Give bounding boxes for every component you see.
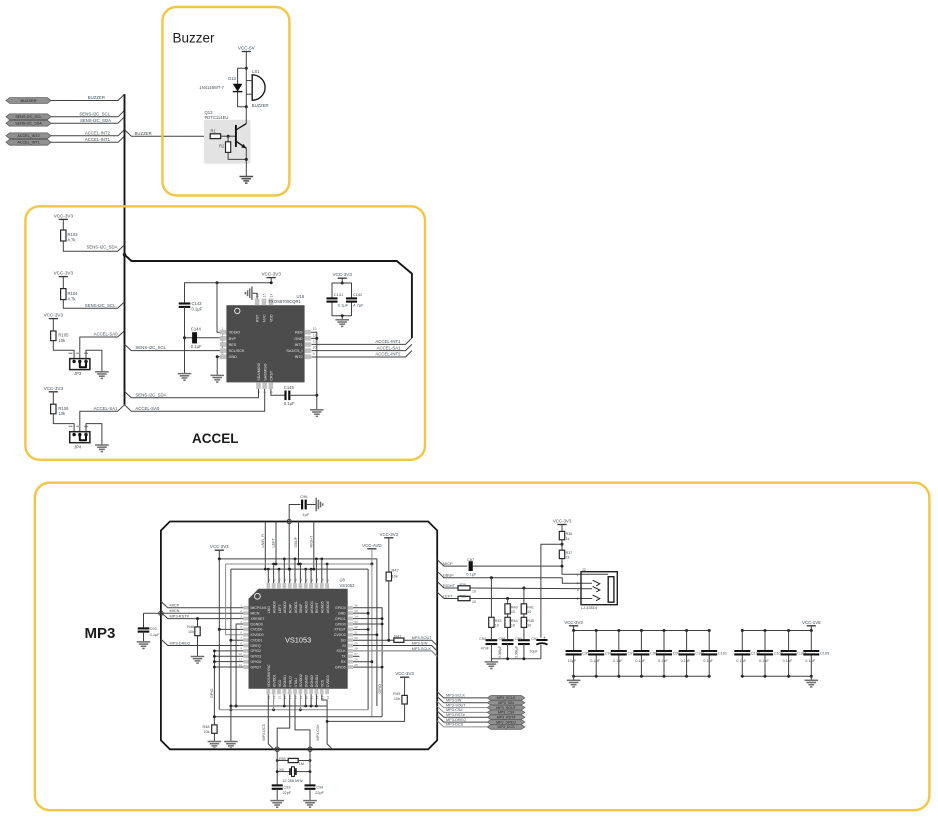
svg-text:23: 23 xyxy=(320,696,324,700)
bus exit wire MP3-SOUT xyxy=(437,701,487,707)
svg-text:GND: GND xyxy=(338,611,346,615)
svg-text:0.1µF: 0.1µF xyxy=(635,659,645,663)
svg-text:LEFT: LEFT xyxy=(278,604,282,613)
svg-text:MP3-DCS: MP3-DCS xyxy=(446,723,464,727)
ground sideways C96 xyxy=(315,498,317,512)
svg-text:1: 1 xyxy=(222,327,224,331)
jumper JP3 xyxy=(70,359,90,370)
svg-text:DGND0: DGND0 xyxy=(251,622,263,626)
left rail v1 xyxy=(218,559,220,710)
capacitor C96 top xyxy=(287,519,291,523)
node flag SENS-I2C_SCL xyxy=(6,114,51,120)
svg-text:XDCS/BSYNC: XDCS/BSYNC xyxy=(267,664,271,687)
svg-text:XTEST: XTEST xyxy=(334,628,346,632)
junction bottom node xyxy=(245,105,248,108)
svg-text:VCC-3V3: VCC-3V3 xyxy=(553,519,572,524)
svg-text:R47: R47 xyxy=(394,633,401,638)
tiny jumper marks JP3 xyxy=(69,353,89,354)
svg-text:SENS-I2C_SCL: SENS-I2C_SCL xyxy=(85,303,116,308)
capacitor C92 xyxy=(143,613,145,628)
svg-text:10: 10 xyxy=(527,610,531,614)
jumper JP4 xyxy=(70,432,90,443)
bus vertical tap GBUF xyxy=(298,522,300,565)
accelerometer U16 FXOS8700CQR1 xyxy=(220,293,317,393)
svg-text:MP3-CS#: MP3-CS# xyxy=(446,708,463,712)
node flag MP3_DCS xyxy=(487,725,525,730)
svg-text:ACCEL-SA0: ACCEL-SA0 xyxy=(135,406,159,411)
wire JP3 pin3 to ground xyxy=(86,350,102,372)
svg-text:11: 11 xyxy=(313,340,317,344)
svg-text:R44: R44 xyxy=(511,619,518,623)
junction pin5 gnd xyxy=(216,355,219,358)
svg-text:VCC-3V3: VCC-3V3 xyxy=(44,386,64,391)
svg-text:47: 47 xyxy=(272,578,276,582)
svg-text:ACCEL-SA0: ACCEL-SA0 xyxy=(94,332,118,337)
bus exit wire MP3-CS# xyxy=(437,706,487,712)
GPIO rail left xyxy=(213,651,215,725)
wire pin12 GND to rail xyxy=(311,337,317,339)
ground C92 xyxy=(137,641,151,643)
svg-text:GND: GND xyxy=(229,355,238,359)
svg-text:10: 10 xyxy=(511,610,515,614)
junction emitter/R2 xyxy=(245,158,248,161)
svg-text:LNIN_R: LNIN_R xyxy=(261,534,265,548)
resistor R43 xyxy=(490,578,492,618)
svg-text:SENS-I2C_SDA: SENS-I2C_SDA xyxy=(80,118,111,123)
svg-text:R39: R39 xyxy=(460,583,466,587)
wire pin25 GPIO5 xyxy=(353,666,382,668)
svg-text:31: 31 xyxy=(354,631,358,635)
node flag MP3_SOUT xyxy=(487,705,525,710)
svg-text:VCC-3V3: VCC-3V3 xyxy=(380,532,399,537)
node flag ACCEL_INT1 xyxy=(6,139,51,145)
diode D13 1N4148WT-7 xyxy=(233,84,243,92)
wire ACCEL-SA1 from JP4 pin2 to bus xyxy=(80,405,125,435)
cap bank2 top rail xyxy=(742,630,811,632)
svg-text:1µF: 1µF xyxy=(303,512,310,517)
svg-text:J2: J2 xyxy=(582,567,586,572)
wire SI MP3-SIN to bus xyxy=(353,646,437,652)
wire pin27 TX stub xyxy=(353,655,360,657)
bus entry MP3-DREQ xyxy=(161,639,243,645)
svg-text:16: 16 xyxy=(283,696,287,700)
wire ACCEL-SA0 from JP3 pin2 to bus xyxy=(80,331,125,362)
ground R48 xyxy=(208,741,222,743)
svg-text:R2: R2 xyxy=(219,144,225,149)
svg-text:42: 42 xyxy=(299,578,303,582)
svg-text:VDD: VDD xyxy=(270,314,274,322)
svg-text:LJ-43514: LJ-43514 xyxy=(581,605,598,610)
capacitor C88 xyxy=(502,639,514,641)
svg-text:XCS: XCS xyxy=(321,679,325,687)
svg-text:39: 39 xyxy=(315,578,319,582)
bus entry ACCEL-INT2 xyxy=(312,351,412,357)
svg-text:10k: 10k xyxy=(58,338,66,343)
svg-text:MICN: MICN xyxy=(170,608,180,613)
wire MP3-SOUT to bus xyxy=(404,640,437,646)
svg-text:0.1µF: 0.1µF xyxy=(466,571,477,576)
wire MICN from C92 xyxy=(144,612,244,614)
svg-text:DGND4: DGND4 xyxy=(315,675,319,687)
wire pin4 DGND0 xyxy=(236,624,243,706)
svg-text:VS1053: VS1053 xyxy=(340,583,356,588)
capacitor C96 xyxy=(595,629,598,632)
svg-text:ACCEL_INT1: ACCEL_INT1 xyxy=(17,141,39,145)
svg-text:GBUF: GBUF xyxy=(299,603,303,613)
svg-text:C141: C141 xyxy=(334,292,344,297)
capacitor C95 xyxy=(572,629,575,632)
capacitor C93 xyxy=(272,784,283,786)
svg-text:GPIO7: GPIO7 xyxy=(251,665,262,669)
resistor R2 xyxy=(226,142,231,153)
svg-text:SENS-I2C_SCL: SENS-I2C_SCL xyxy=(135,345,166,350)
wire block to ground xyxy=(341,316,343,320)
svg-text:VDDIO: VDDIO xyxy=(229,331,241,335)
wire R2 top xyxy=(227,136,229,142)
ground cap bank2 xyxy=(810,676,812,680)
capacitor C103 xyxy=(764,629,767,632)
capacitor C94 xyxy=(305,784,316,786)
wire VCC-5V to node xyxy=(245,52,247,69)
svg-text:MP3-DREQ: MP3-DREQ xyxy=(446,718,466,722)
bus entry ACCEL-SA1 xyxy=(312,344,412,350)
svg-text:14: 14 xyxy=(272,696,276,700)
svg-text:37: 37 xyxy=(326,578,330,582)
svg-text:C144: C144 xyxy=(191,327,202,332)
left rail v2 xyxy=(226,564,244,635)
svg-text:R104: R104 xyxy=(68,291,79,296)
svg-text:GPIO5: GPIO5 xyxy=(335,665,346,669)
svg-text:MP3-DCS: MP3-DCS xyxy=(262,723,266,740)
svg-text:XTALI: XTALI xyxy=(294,678,298,687)
svg-text:INT2: INT2 xyxy=(295,355,303,359)
svg-text:22: 22 xyxy=(315,696,319,700)
svg-text:11: 11 xyxy=(239,657,242,661)
svg-text:1N4148WT-7: 1N4148WT-7 xyxy=(199,85,224,90)
svg-text:0.1µF: 0.1µF xyxy=(759,659,769,663)
wire R37 to MICP node xyxy=(561,559,563,567)
wire main vertical VCC to collector xyxy=(245,68,247,107)
wire XTALI route xyxy=(295,694,310,756)
svg-text:VCC-3V3: VCC-3V3 xyxy=(44,313,64,318)
svg-text:C93: C93 xyxy=(284,786,291,790)
svg-text:20: 20 xyxy=(304,696,308,700)
svg-text:10µF: 10µF xyxy=(568,659,577,663)
svg-text:0.1µF: 0.1µF xyxy=(681,659,691,663)
svg-text:IOVDD1: IOVDD1 xyxy=(272,674,276,687)
svg-text:10: 10 xyxy=(527,624,531,628)
section frame ACCEL xyxy=(25,206,425,459)
svg-text:24: 24 xyxy=(326,696,330,700)
svg-text:CVDD1: CVDD1 xyxy=(251,638,263,642)
ground C93 xyxy=(270,800,284,802)
svg-text:R105: R105 xyxy=(58,333,69,338)
svg-text:XTALO: XTALO xyxy=(288,676,292,687)
svg-text:38: 38 xyxy=(320,578,324,582)
ground right rail xyxy=(310,409,324,411)
wire pin5 CVDD0 xyxy=(219,628,243,630)
svg-text:C145: C145 xyxy=(284,385,295,390)
capacitor C99 xyxy=(663,629,666,632)
junction VDD stem xyxy=(270,281,273,284)
svg-text:R1: R1 xyxy=(211,128,217,133)
svg-text:4: 4 xyxy=(222,346,224,350)
svg-text:VCC-3V3: VCC-3V3 xyxy=(54,213,74,218)
ground C94 xyxy=(303,800,317,802)
wire pin36 GPIO4 to gpio rail xyxy=(353,608,382,717)
svg-text:AGND4: AGND4 xyxy=(310,601,314,613)
svg-text:RIGHT: RIGHT xyxy=(310,535,314,547)
svg-text:1k: 1k xyxy=(566,537,570,541)
wire R49 to XCS xyxy=(327,704,405,721)
wire CRST pin8 to C145 xyxy=(271,389,286,395)
svg-text:AGND5: AGND5 xyxy=(321,601,325,613)
svg-text:0.1µF: 0.1µF xyxy=(284,401,295,406)
svg-text:R42: R42 xyxy=(392,567,399,572)
svg-text:25: 25 xyxy=(354,663,358,667)
svg-text:RX: RX xyxy=(341,660,347,664)
node flag MP3_RST# xyxy=(487,715,525,720)
svg-text:JP4: JP4 xyxy=(74,444,82,449)
resistor R39 series xyxy=(458,586,470,590)
svg-text:R106: R106 xyxy=(58,406,69,411)
wire SENS-I2C_SCL to pin4 xyxy=(125,344,227,350)
ground C143 xyxy=(178,373,192,375)
wire ACCEL-INT1 to bus xyxy=(51,136,125,142)
resistor R1 xyxy=(210,134,220,139)
capacitor C144 xyxy=(192,332,197,343)
svg-text:10: 10 xyxy=(495,624,499,628)
svg-text:9: 9 xyxy=(313,352,315,356)
svg-text:AGND6: AGND6 xyxy=(326,601,330,613)
bus entry GBUF right xyxy=(437,571,592,583)
svg-text:ACCEL-INT2: ACCEL-INT2 xyxy=(85,131,111,136)
bus vertical tap LEFT xyxy=(275,522,277,565)
svg-text:BYP: BYP xyxy=(229,337,237,341)
svg-text:SENS-I2C_SCL: SENS-I2C_SCL xyxy=(15,115,41,119)
svg-text:1k: 1k xyxy=(566,556,570,560)
svg-text:45: 45 xyxy=(283,578,287,582)
ground buzzer xyxy=(240,176,254,178)
svg-text:MP3_SIN: MP3_SIN xyxy=(498,701,514,705)
capacitor C97 xyxy=(617,629,620,632)
svg-text:SDA/MOSI: SDA/MOSI xyxy=(257,363,261,381)
resistor R49 pullup xyxy=(402,695,407,704)
svg-text:BUZZER: BUZZER xyxy=(21,98,37,103)
ground R46 xyxy=(191,656,205,658)
svg-text:GPIO: GPIO xyxy=(210,688,214,698)
svg-text:LEFT: LEFT xyxy=(272,538,276,548)
wire VCC to R104 xyxy=(62,277,64,289)
svg-text:3: 3 xyxy=(222,340,224,344)
svg-text:MP3_DCS: MP3_DCS xyxy=(498,725,516,729)
svg-text:LS1: LS1 xyxy=(252,69,260,74)
svg-text:SENS-I2C_SDA: SENS-I2C_SDA xyxy=(86,244,117,249)
resistor R42 xyxy=(386,572,391,581)
resistor R36 xyxy=(559,531,564,539)
svg-text:GPIO1: GPIO1 xyxy=(335,617,346,621)
wire BUZZER exit from bus xyxy=(125,130,211,137)
capacitor C143 xyxy=(179,302,191,304)
svg-text:32: 32 xyxy=(354,625,358,629)
svg-text:41: 41 xyxy=(304,578,308,582)
bus entry MICP right xyxy=(437,560,467,567)
svg-text:0.1µF: 0.1µF xyxy=(191,344,202,349)
svg-text:46: 46 xyxy=(278,578,282,582)
bus entry LEFT xyxy=(437,592,458,598)
svg-text:NVC: NVC xyxy=(263,314,267,322)
resistor R38 series xyxy=(458,596,470,600)
svg-text:10k: 10k xyxy=(392,573,398,578)
transistor block shading xyxy=(204,120,251,164)
wire IOVDD collect gray xyxy=(219,709,368,711)
wire DGND collect xyxy=(231,705,327,707)
svg-text:C142: C142 xyxy=(353,292,363,297)
rail3 vertical down right xyxy=(367,569,369,710)
svg-text:C101: C101 xyxy=(718,652,727,656)
svg-text:MICN: MICN xyxy=(251,611,260,615)
hop circle XTALO/bus xyxy=(275,747,279,751)
svg-text:0.1µF: 0.1µF xyxy=(805,659,815,663)
svg-text:R38: R38 xyxy=(460,595,466,599)
junction C145 node xyxy=(315,394,318,397)
svg-text:C94: C94 xyxy=(316,786,323,790)
wire XTALO route xyxy=(277,694,290,756)
bus exit wire MP3-RST# xyxy=(437,711,487,717)
svg-text:MICP: MICP xyxy=(443,561,453,566)
svg-text:ACCEL_INT2: ACCEL_INT2 xyxy=(17,134,39,138)
resistor R45 xyxy=(523,614,525,617)
bus vertical tap LNIN_R xyxy=(264,522,266,570)
bus entry MICP xyxy=(161,601,243,607)
bus vertical main xyxy=(124,94,126,405)
svg-text:LEFT: LEFT xyxy=(443,593,453,598)
svg-text:SENS-I2C_SDA: SENS-I2C_SDA xyxy=(135,392,166,397)
svg-text:D13: D13 xyxy=(228,76,236,81)
svg-text:FXOS8700CQR1: FXOS8700CQR1 xyxy=(269,299,302,304)
wire cap block frame xyxy=(332,283,352,298)
svg-text:MP3-RST#: MP3-RST# xyxy=(446,713,466,717)
node flag BUZZER xyxy=(6,98,51,104)
svg-text:C105: C105 xyxy=(820,652,829,656)
svg-text:VCC-AVD: VCC-AVD xyxy=(362,543,381,548)
svg-text:R43: R43 xyxy=(495,619,502,623)
svg-text:GPIO2: GPIO2 xyxy=(251,649,262,653)
svg-text:GPIO: GPIO xyxy=(378,684,382,694)
svg-text:12: 12 xyxy=(313,333,317,337)
junction R36/R37 xyxy=(561,543,564,546)
svg-text:MICP: MICP xyxy=(170,603,180,608)
svg-text:4: 4 xyxy=(577,582,579,586)
svg-text:28: 28 xyxy=(354,647,358,651)
bus exit wire MP3-DCS xyxy=(437,721,487,727)
rail2 vertical down xyxy=(371,564,373,717)
svg-text:0.1µF: 0.1µF xyxy=(783,659,793,663)
wires top pins to rails xyxy=(283,559,285,583)
svg-text:GBUF: GBUF xyxy=(443,573,454,578)
resistor R50 xyxy=(277,760,288,762)
svg-text:RES: RES xyxy=(295,331,303,335)
svg-text:Buzzer: Buzzer xyxy=(173,31,216,46)
wire SO through R47 to MP3-SOUT xyxy=(353,639,394,641)
svg-text:AGND3: AGND3 xyxy=(305,601,309,613)
svg-text:IOVDD0: IOVDD0 xyxy=(251,633,264,637)
svg-text:4.7k: 4.7k xyxy=(68,238,77,243)
bus vertical tap RIGHT xyxy=(313,522,315,570)
svg-text:CVDD2: CVDD2 xyxy=(334,633,346,637)
svg-text:48: 48 xyxy=(267,578,271,582)
wire R104 to bus SENS-I2C_SCL xyxy=(63,300,124,309)
resistor R106 xyxy=(51,404,56,414)
svg-text:SCL/SCK: SCL/SCK xyxy=(229,349,245,353)
svg-text:MP3_RST#: MP3_RST# xyxy=(497,715,516,719)
ground JP3 xyxy=(95,371,109,373)
wire JP4 pin3 to ground xyxy=(86,424,102,445)
svg-text:R50: R50 xyxy=(279,757,286,761)
svg-text:0.1µF: 0.1µF xyxy=(590,659,600,663)
svg-text:MP3-CS#: MP3-CS# xyxy=(316,724,320,741)
svg-text:ACCEL-SA1: ACCEL-SA1 xyxy=(94,406,118,411)
transistor Q13 xyxy=(235,125,237,147)
svg-text:13: 13 xyxy=(313,327,317,331)
wire MICP to jack xyxy=(473,565,562,567)
svg-text:10k: 10k xyxy=(394,696,400,701)
svg-text:SI: SI xyxy=(342,644,345,648)
svg-text:DGND1: DGND1 xyxy=(283,675,287,687)
svg-text:33: 33 xyxy=(354,620,358,624)
svg-text:C92: C92 xyxy=(150,626,157,631)
ground cap bank1 xyxy=(573,676,575,680)
ground sideways at RST xyxy=(251,286,253,300)
wire R2 bottom to emitter xyxy=(228,152,246,159)
resistor R105 xyxy=(51,331,56,341)
svg-text:21: 21 xyxy=(310,696,314,700)
left rail v3 xyxy=(230,569,232,741)
svg-text:C96: C96 xyxy=(300,494,307,499)
junction bus split xyxy=(123,253,127,257)
bus entry RIGHT xyxy=(437,582,458,589)
svg-text:10k: 10k xyxy=(58,411,66,416)
wire RST pin16 to ground-left xyxy=(252,293,257,298)
wire LEFT to jack xyxy=(470,598,592,600)
wire pin34 GPIO1 xyxy=(353,618,382,620)
wire pin13 RES to gnd rail xyxy=(311,332,317,410)
svg-text:CRST: CRST xyxy=(270,370,274,381)
svg-text:LNO: LNO xyxy=(267,606,271,613)
wire pin33 GPIO0 xyxy=(353,623,382,625)
svg-text:5: 5 xyxy=(222,352,224,356)
svg-text:RIGHT: RIGHT xyxy=(443,583,456,588)
svg-text:29: 29 xyxy=(354,641,358,645)
wire VCC to R103 xyxy=(62,219,64,230)
svg-text:SENS-I2C_SDA: SENS-I2C_SDA xyxy=(15,122,42,126)
junction C143 branch xyxy=(216,281,219,284)
svg-text:2: 2 xyxy=(577,597,579,601)
wire SENS-I2C_SCL to bus xyxy=(51,110,125,116)
svg-text:VCC-5V: VCC-5V xyxy=(238,46,256,51)
svg-text:R103: R103 xyxy=(68,232,79,237)
wire pin35 GND xyxy=(353,612,368,614)
ground pin5 xyxy=(210,374,224,376)
wire VCC rail above U16 xyxy=(185,283,272,303)
svg-text:10: 10 xyxy=(472,589,476,593)
svg-text:IOVDD2: IOVDD2 xyxy=(299,674,303,687)
rail3 xyxy=(231,568,368,570)
bus exit wire MP3-SCLK xyxy=(437,692,487,698)
svg-text:VCC-3V3: VCC-3V3 xyxy=(210,544,229,549)
svg-text:R45: R45 xyxy=(527,619,534,623)
svg-text:DGND2: DGND2 xyxy=(305,675,309,687)
